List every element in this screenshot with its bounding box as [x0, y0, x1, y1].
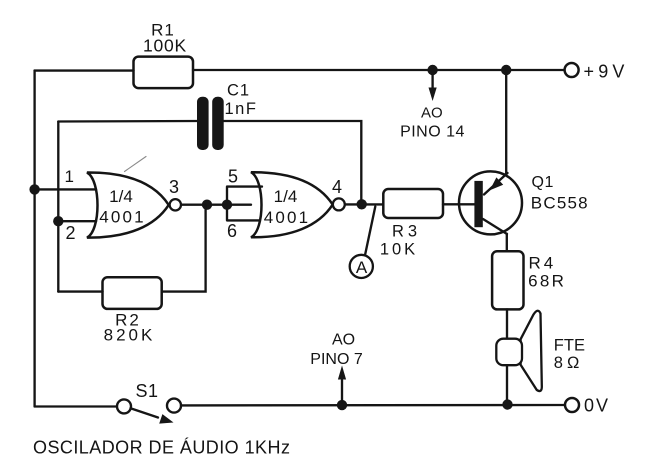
resistor R1	[134, 57, 194, 89]
wire pin1 stub	[35, 188, 96, 190]
wire C1 left	[58, 120, 197, 123]
pin label 1	[65, 167, 74, 186]
svg-text:1nF: 1nF	[225, 100, 258, 118]
node junction at AO PINO 14	[427, 65, 437, 75]
svg-text:R4: R4	[529, 254, 557, 273]
wire gate1 output to gate2 inputs	[182, 204, 251, 206]
resistor R3	[383, 189, 443, 218]
svg-text:S1: S1	[135, 381, 158, 401]
label FTE	[554, 337, 585, 355]
stray scan scratch above gate1	[125, 157, 147, 172]
wire R4 to speaker	[506, 309, 508, 338]
svg-text:1: 1	[65, 167, 74, 186]
label 1/4 gate2	[274, 187, 298, 206]
resistor R4	[492, 251, 523, 309]
svg-text:Q1: Q1	[532, 174, 554, 191]
capacitor C1	[197, 97, 224, 150]
svg-text:6: 6	[227, 221, 237, 241]
value 100K	[143, 36, 187, 56]
svg-text:4001: 4001	[99, 208, 146, 227]
svg-text:C1: C1	[227, 82, 250, 100]
svg-text:3: 3	[169, 177, 179, 197]
node pin1 junction	[29, 184, 39, 194]
node junction speaker ground	[502, 399, 512, 409]
label 4001 gate1	[99, 208, 146, 227]
svg-text:0V: 0V	[584, 396, 610, 416]
wire input bracket gate2	[227, 187, 262, 221]
svg-text:8Ω: 8Ω	[554, 354, 584, 372]
transistor Q1	[459, 171, 522, 234]
node gate2 bubble pin4	[333, 198, 345, 210]
svg-text:68R: 68R	[528, 272, 566, 291]
svg-text:10K: 10K	[380, 241, 418, 259]
svg-text:820K: 820K	[104, 326, 156, 345]
label AO	[421, 105, 443, 122]
pin label 6	[227, 221, 237, 241]
terminal +9V	[565, 63, 579, 77]
label 1/4 gate1	[109, 187, 133, 206]
svg-text:BC558: BC558	[531, 194, 589, 213]
op-amp U1a NOR gate 1/4 4001	[87, 172, 169, 237]
arrow AO PINO 14	[429, 72, 437, 101]
label C1	[227, 82, 250, 100]
node junction AO PINO 7	[337, 400, 347, 410]
node junction emitter rail	[501, 65, 511, 75]
caption OSCILADOR DE AUDIO 1KHz	[33, 438, 290, 458]
svg-text:2: 2	[66, 223, 76, 243]
node A test point	[350, 207, 376, 279]
label R4	[529, 254, 557, 273]
value 1nF	[225, 100, 258, 118]
pin label 5	[228, 167, 238, 187]
wire rail2 vertical	[57, 122, 59, 292]
svg-text:1/4: 1/4	[274, 187, 298, 206]
wire bottom rail right	[181, 404, 565, 407]
label 4001 gate2	[264, 208, 311, 227]
wire emitter to +9V	[505, 70, 507, 174]
label A	[356, 258, 368, 277]
label PINO 14	[400, 123, 465, 140]
op-amp U1b NOR gate 1/4 4001	[251, 172, 333, 237]
label 0V	[584, 396, 610, 416]
svg-text:100K: 100K	[143, 36, 187, 56]
svg-text:PINO 14: PINO 14	[400, 123, 465, 140]
wire R2 right	[162, 205, 206, 292]
wire R2 left	[58, 290, 102, 292]
resistor R2	[103, 277, 162, 309]
svg-text:A: A	[356, 258, 368, 277]
svg-text:4001: 4001	[264, 208, 311, 227]
pin label 3	[169, 177, 179, 197]
label PINO 7	[310, 351, 363, 368]
node pin2 junction	[53, 216, 63, 226]
label R2	[115, 311, 141, 330]
svg-text:AO: AO	[332, 332, 355, 349]
pin label 2	[66, 223, 76, 243]
wire pin2 stub	[58, 220, 96, 222]
wire left rail	[33, 71, 35, 407]
node junction C1 return	[357, 199, 367, 209]
svg-text:1/4: 1/4	[109, 187, 133, 206]
wire bottom rail left	[35, 405, 117, 407]
label R1	[151, 21, 175, 40]
wire collector to R4	[506, 234, 508, 252]
svg-text:R3: R3	[392, 223, 421, 241]
svg-text:OSCILADOR DE ÁUDIO 1KHz: OSCILADOR DE ÁUDIO 1KHz	[33, 438, 290, 458]
wire speaker to ground rail	[506, 365, 508, 404]
wire top rail right segment	[193, 69, 565, 71]
node gate1 bubble pin3	[170, 199, 181, 210]
node junction input bracket	[222, 200, 232, 210]
wire gate2 output to R3	[346, 203, 384, 205]
value 8 ohm	[554, 354, 584, 372]
svg-text:4: 4	[332, 177, 342, 197]
value 10K	[380, 241, 418, 259]
wire top rail left segment	[35, 69, 134, 71]
terminal 0V	[565, 398, 579, 412]
svg-text:PINO 7: PINO 7	[310, 351, 363, 368]
label S1	[135, 381, 158, 401]
speaker FTE	[496, 311, 542, 391]
label R3	[392, 223, 421, 241]
label AO bottom	[332, 332, 355, 349]
label Q1	[532, 174, 554, 191]
svg-text:FTE: FTE	[554, 337, 585, 355]
wire base	[443, 203, 474, 205]
wire C1 right to gate2 output	[224, 121, 362, 204]
svg-text:5: 5	[228, 167, 238, 187]
arrow AO PINO 7	[338, 366, 346, 404]
value 820K	[104, 326, 156, 345]
node junction R2 feedback	[202, 200, 212, 210]
svg-text:AO: AO	[421, 105, 443, 122]
value 68R	[528, 272, 566, 291]
switch S1	[117, 399, 181, 424]
label BC558	[531, 194, 589, 213]
svg-text:+9V: +9V	[584, 62, 629, 82]
label +9V	[584, 62, 629, 82]
pin label 4	[332, 177, 342, 197]
